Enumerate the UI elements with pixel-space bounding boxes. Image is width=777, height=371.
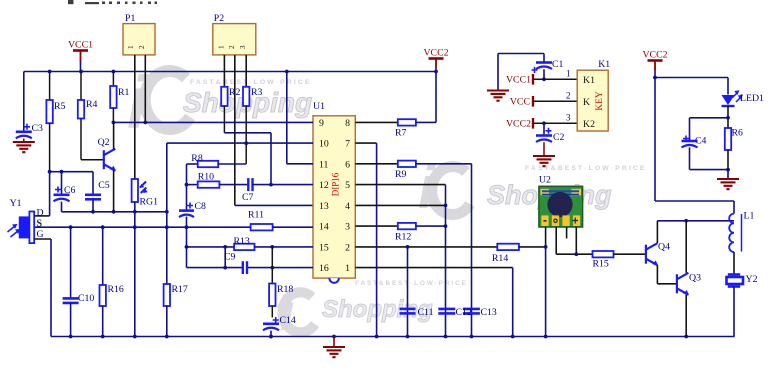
- capacitor C10: [70, 227, 72, 298]
- wire VCC2 right column down: [654, 78, 656, 202]
- junction dot R4 rail: [79, 70, 83, 74]
- transistor Q4: [646, 243, 658, 265]
- svg-text:10: 10: [319, 139, 329, 150]
- svg-text:Y1: Y1: [10, 198, 22, 209]
- svg-text:R15: R15: [593, 259, 609, 270]
- wire VCC2 down to R7: [435, 72, 437, 123]
- svg-text:C13: C13: [481, 307, 497, 318]
- svg-text:Y2: Y2: [746, 274, 758, 285]
- U1 pin9 wire: [113, 121, 313, 123]
- junction dot rail/VCC2: [434, 70, 438, 74]
- P1 pin 2 wire down to pin9 wire: [144, 55, 146, 123]
- svg-text:Q4: Q4: [658, 242, 670, 253]
- svg-text:15: 15: [319, 242, 329, 253]
- svg-text:P2: P2: [214, 13, 224, 24]
- svg-text:L1: L1: [744, 211, 755, 222]
- junction dots on emitter wire: [91, 210, 95, 214]
- ground rail (bottom): [51, 336, 735, 338]
- ground below C2: [533, 155, 555, 157]
- junction dot rail R5: [48, 70, 52, 74]
- resistor R16: [102, 227, 104, 285]
- U1 pin6 wire with R9: [355, 163, 398, 165]
- svg-text:Shopping: Shopping: [322, 296, 433, 323]
- svg-text:5: 5: [345, 180, 350, 191]
- junction dot C8/pin12: [185, 183, 189, 187]
- svg-text:1: 1: [566, 69, 571, 79]
- svg-text:U1: U1: [313, 101, 325, 112]
- top VCC rail wire: [24, 71, 436, 73]
- svg-text:R13: R13: [234, 236, 250, 247]
- svg-text:Q2: Q2: [98, 137, 110, 148]
- resistor R1: [110, 86, 116, 108]
- capacitor C3: [24, 124, 30, 130]
- P2 pin2 wire down to U1 pin13 wire: [234, 55, 236, 206]
- svg-text:C10: C10: [78, 293, 94, 304]
- svg-text:LED1: LED1: [740, 93, 764, 104]
- U1 pin15 wire with R13: [187, 246, 235, 248]
- ground below R6: [717, 178, 739, 180]
- svg-text:2: 2: [345, 242, 350, 253]
- junction dots C4 loop: [726, 116, 730, 120]
- inductor L1: [729, 214, 734, 252]
- U2 pin3 stub: [566, 227, 568, 239]
- svg-text:12: 12: [319, 180, 329, 191]
- svg-text:R18: R18: [277, 284, 293, 295]
- transistor Q2: [104, 149, 116, 171]
- svg-text:R7: R7: [395, 128, 407, 139]
- svg-text:C5: C5: [98, 180, 110, 191]
- svg-text:C1: C1: [552, 59, 564, 70]
- junction dots on pin14 wire: [69, 225, 73, 229]
- U1 pin11 stub to VCC rail: [287, 163, 313, 165]
- svg-text:C8: C8: [195, 201, 207, 212]
- svg-text:C11: C11: [418, 307, 434, 318]
- wire rail to R1: [112, 72, 114, 87]
- wire R2 jog to pin12 node: [223, 106, 225, 133]
- U1 pin12 wire with R10 and C7: [187, 184, 198, 186]
- wire C8 column (R8 corner down through C8 to C9 wire): [186, 164, 188, 210]
- P1 pin 1 wire down to RG1 column: [134, 55, 136, 179]
- P2 pin3 wire to R3: [245, 55, 247, 87]
- svg-text:1: 1: [345, 263, 350, 274]
- svg-text:K: K: [583, 97, 590, 108]
- C4 loop wires: [690, 117, 729, 119]
- junction dot pin4/C12col: [444, 204, 448, 208]
- svg-text:C14: C14: [280, 315, 296, 326]
- junction dot C2/VCC2 wire: [542, 121, 546, 125]
- svg-text:VCC2: VCC2: [423, 48, 448, 59]
- svg-text:K2: K2: [583, 119, 595, 130]
- collector bus wire: [657, 220, 734, 222]
- svg-text:R16: R16: [108, 284, 124, 295]
- capacitor C8: [187, 203, 193, 209]
- svg-text:R4: R4: [86, 99, 98, 110]
- svg-text:2: 2: [566, 91, 571, 101]
- K1 pin3 wire: [533, 122, 577, 124]
- svg-text:U2: U2: [539, 174, 551, 185]
- svg-text:R14: R14: [492, 253, 508, 264]
- U1 pin8 wire with R7 to VCC2: [355, 121, 398, 123]
- svg-text:KEY: KEY: [595, 91, 605, 111]
- U1 pin10 wire: [167, 142, 313, 144]
- RG1 wire down: [134, 202, 136, 337]
- wire pin10 corner down to R17 column: [166, 143, 168, 284]
- ground symbol below rail: [333, 337, 335, 347]
- wire VCC2 column to L1 top: [655, 200, 734, 202]
- emitter bottom wire: [62, 211, 167, 213]
- svg-text:K1: K1: [598, 59, 610, 70]
- junction dot pin2/C11col: [406, 245, 410, 249]
- ground for C1: [497, 54, 499, 91]
- U1 pin16 wire with C9: [187, 267, 243, 269]
- link wire pin15 to pin16: [224, 247, 226, 268]
- diode LED1: [722, 95, 735, 105]
- U1 pin14 wire / mic S rail with R11: [34, 226, 250, 228]
- svg-text:11: 11: [319, 159, 329, 170]
- U2 pin2 wire to R15: [555, 227, 557, 254]
- capacitor C13: [463, 308, 480, 311]
- K1 pin1 wire: [533, 78, 577, 80]
- junction dot C1/VCC1 wire: [542, 77, 546, 81]
- svg-text:K1: K1: [583, 75, 595, 86]
- junction dot Q3 collector: [684, 219, 688, 223]
- P2 pin1 wire to R2: [223, 55, 225, 87]
- svg-text:3: 3: [345, 222, 350, 233]
- svg-text:C2: C2: [553, 132, 565, 143]
- svg-text:FAST&BEST·LOW·PRICE: FAST&BEST·LOW·PRICE: [190, 79, 311, 86]
- svg-text:13: 13: [319, 201, 329, 212]
- ground below C3: [13, 141, 35, 143]
- junction dot rail/pin11 riser: [285, 70, 289, 74]
- svg-text:C12: C12: [456, 307, 472, 318]
- junction dot pin16/R18col: [270, 266, 274, 270]
- resistor R18: [271, 247, 273, 284]
- svg-text:R8: R8: [191, 153, 203, 164]
- capacitor C6: [61, 172, 63, 194]
- resistor R15: [593, 251, 614, 257]
- U1 pin2 wire with R14 to U2: [355, 246, 497, 248]
- wire rail to R5: [49, 72, 51, 101]
- resistor R2: [221, 87, 227, 106]
- U2 pin1 wire down to ground rail: [545, 227, 547, 247]
- resistor R4: [78, 100, 84, 119]
- junction dot R1/pin9: [112, 121, 116, 125]
- wire C1 top: [498, 53, 544, 55]
- svg-text:C7: C7: [242, 192, 254, 203]
- wire LED1 to R6: [727, 106, 729, 128]
- U1 pin5 wire: [355, 184, 445, 186]
- svg-text:R12: R12: [395, 232, 411, 243]
- svg-text:VCC1: VCC1: [68, 40, 93, 51]
- svg-text:VCC2: VCC2: [642, 50, 667, 61]
- U2 pin4 wire down: [575, 227, 577, 254]
- svg-text:14: 14: [319, 222, 329, 233]
- svg-text:P1: P1: [125, 13, 135, 24]
- svg-text:Q3: Q3: [689, 273, 701, 284]
- svg-text:RG1: RG1: [140, 197, 159, 208]
- capacitor C1: [532, 67, 538, 73]
- resistor R3: [243, 87, 249, 106]
- wire C6/C5 top link: [50, 171, 93, 173]
- wire pin5 corner down (C12 column): [445, 185, 447, 337]
- junction dot C6 top: [60, 170, 64, 174]
- resistor R5: [46, 100, 52, 123]
- svg-text:R1: R1: [118, 87, 130, 98]
- junction dot U2pin4/R15 wire: [574, 252, 578, 256]
- wire - left column to C3: [23, 72, 25, 131]
- svg-text:3: 3: [239, 45, 247, 49]
- junction dot R2-branch/pin12: [269, 183, 273, 187]
- svg-text:1: 1: [127, 45, 135, 49]
- svg-text:C3: C3: [32, 123, 44, 134]
- capacitor C4: [683, 136, 689, 142]
- junction dot D/R5/C6 node: [48, 170, 52, 174]
- svg-text:C9: C9: [224, 252, 236, 263]
- wire C11 column down: [407, 247, 409, 337]
- junction dot pin15/C8col: [185, 245, 189, 249]
- U1 pin7 wire down to ground rail: [355, 142, 376, 144]
- svg-text:DIP16: DIP16: [331, 172, 341, 196]
- svg-text:16: 16: [319, 263, 329, 274]
- svg-text:8: 8: [345, 118, 350, 129]
- Y1 D wire up to R5 node: [34, 215, 49, 217]
- svg-text:6: 6: [345, 159, 350, 170]
- svg-text:R17: R17: [172, 284, 188, 295]
- svg-text:FAST&BEST·LOW·PRICE: FAST&BEST·LOW·PRICE: [355, 280, 468, 287]
- svg-text:R11: R11: [248, 210, 264, 221]
- junction dot U2pin1/R14: [544, 245, 548, 249]
- svg-text:R10: R10: [198, 172, 214, 183]
- svg-text:R3: R3: [251, 87, 263, 98]
- wire pin6 corner down (C13 column): [471, 164, 473, 337]
- U1 pin4 wire: [355, 204, 445, 206]
- junction dot R3/pin10: [244, 141, 248, 145]
- capacitor C12: [438, 308, 455, 311]
- U1 pin1 wire: [355, 267, 512, 269]
- svg-text:4: 4: [345, 201, 350, 212]
- junction dot LED branch: [653, 76, 657, 80]
- svg-text:VCC2: VCC2: [506, 119, 531, 130]
- crystal Y2: [728, 273, 740, 276]
- svg-text:3: 3: [566, 113, 571, 123]
- svg-text:VCC1: VCC1: [506, 75, 531, 86]
- svg-text:D: D: [37, 208, 44, 219]
- junction dot C14/rail: [269, 335, 273, 339]
- junction dot pin3/C12col: [444, 224, 448, 228]
- resistor R8: [187, 163, 198, 165]
- capacitor C5: [92, 172, 94, 195]
- wire R5 down to C6/C5 top node: [49, 123, 51, 172]
- capacitor C11: [400, 308, 416, 311]
- svg-text:R6: R6: [732, 128, 744, 139]
- svg-text:7: 7: [345, 139, 350, 150]
- capacitor C14: [273, 317, 279, 323]
- wire to LED1: [655, 77, 728, 79]
- svg-text:9: 9: [319, 118, 324, 129]
- resistor R17: [164, 284, 170, 306]
- photoresistor RG1: [132, 179, 138, 202]
- Y1 G wire down to rail: [34, 238, 51, 240]
- svg-text:S: S: [37, 219, 43, 230]
- wire R3 down to R8 wire: [245, 106, 247, 164]
- svg-text:R5: R5: [54, 101, 66, 112]
- junction dot P1 pin2: [143, 121, 147, 125]
- wire pin1 corner down to ground rail: [512, 268, 514, 337]
- wire Y2 down to rail: [733, 287, 735, 337]
- top cut-off caption text: [68, 0, 157, 4]
- wire R15 to Q4 base: [614, 253, 646, 255]
- U1 pin3 wire with R12: [355, 225, 398, 227]
- svg-text:2: 2: [228, 45, 236, 49]
- svg-text:2: 2: [138, 45, 146, 49]
- wire R1 to pin9 node: [112, 108, 114, 122]
- K1 pin2 wire: [533, 100, 577, 102]
- capacitor C2: [543, 123, 545, 134]
- wire L1 to Y2: [733, 252, 735, 275]
- junction dot R1 rail: [112, 70, 116, 74]
- wire R4 to Q2 base corner: [80, 119, 82, 160]
- svg-text:VCC: VCC: [510, 97, 530, 108]
- wire rail to R4: [80, 72, 82, 101]
- transistor Q3: [677, 273, 689, 295]
- resistor R6: [725, 128, 731, 150]
- svg-text:R9: R9: [395, 169, 407, 180]
- wire R6 down to ground: [727, 150, 729, 170]
- svg-text:R2: R2: [229, 87, 241, 98]
- junction dot pin15/R18col: [270, 245, 274, 249]
- svg-text:1: 1: [217, 45, 225, 49]
